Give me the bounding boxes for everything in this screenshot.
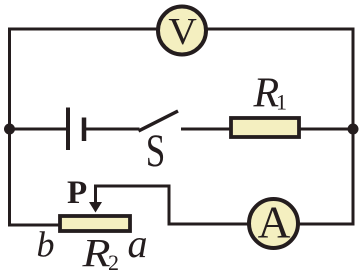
wire: R1 to right node — [299, 128, 354, 131]
wire: bottom middle to ammeter — [168, 223, 249, 226]
switch S blade — [139, 111, 179, 131]
wire: battery to switch — [86, 128, 140, 131]
wire: bottom left to R2 — [8, 224, 60, 227]
resistor R1 body — [231, 118, 299, 137]
battery long plate — [66, 108, 70, 151]
node left junction dot — [4, 124, 15, 135]
wire: top right horizontal — [207, 28, 355, 31]
svg-text:2: 2 — [108, 250, 119, 273]
svg-text:V: V — [168, 11, 197, 53]
wire: slider horizontal — [94, 185, 169, 188]
battery short plate — [82, 118, 87, 142]
wire: right vertical — [352, 28, 355, 226]
ammeter A circle — [249, 199, 298, 248]
wire: left vertical — [8, 28, 11, 227]
svg-text:A: A — [258, 197, 291, 248]
svg-text:P: P — [67, 175, 87, 211]
wire: slider arrow shaft — [94, 185, 97, 204]
wire: switch contact to R1 — [181, 128, 231, 131]
svg-text:a: a — [128, 221, 148, 266]
voltmeter V circle — [158, 7, 206, 55]
rheostat R2 body — [60, 216, 130, 231]
svg-text:S: S — [146, 125, 166, 177]
slider arrowhead — [89, 202, 102, 213]
svg-text:b: b — [37, 225, 55, 265]
svg-text:R: R — [81, 231, 110, 273]
wire: ammeter to bottom right — [299, 223, 354, 226]
wire: slider right vertical — [168, 185, 171, 226]
wire: top left horizontal — [8, 28, 157, 31]
svg-text:1: 1 — [276, 90, 287, 115]
wire: middle left (node to battery) — [8, 128, 66, 131]
node right junction dot — [348, 124, 359, 135]
